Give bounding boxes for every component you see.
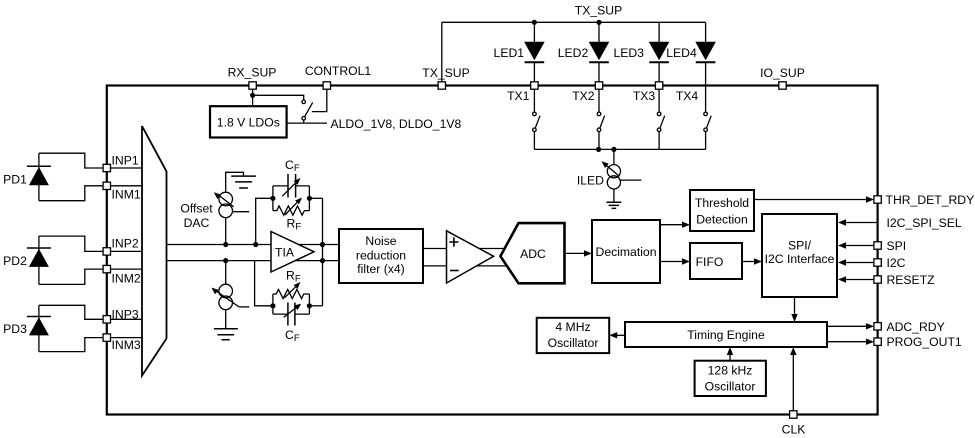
- block Decimation: [592, 220, 660, 283]
- current source offset DAC upper: [219, 192, 233, 206]
- svg-text:TX_SUP: TX_SUP: [422, 66, 469, 80]
- wire ILED control stub: [621, 179, 642, 181]
- wire filter to ADC lower: [423, 265, 508, 267]
- pin INM3: [103, 334, 110, 341]
- svg-text:CF: CF: [285, 158, 300, 174]
- svg-text:LED3: LED3: [613, 46, 644, 60]
- wire Timing Engine to ADC_RDY pin: [827, 325, 870, 327]
- photodiode PD2 vertical: [38, 236, 40, 284]
- svg-text:THR_DET_RDY: THR_DET_RDY: [886, 193, 975, 207]
- wire switch S3 to bus: [658, 132, 660, 150]
- node feedback lower right: [307, 303, 312, 308]
- feedback loop lower frame: [273, 294, 310, 314]
- block Threshold Detection: [690, 190, 754, 231]
- current source offset DAC lower: [219, 284, 233, 298]
- wire mux to TIA negative (lower): [167, 260, 340, 262]
- svg-text:Oscillator: Oscillator: [705, 380, 756, 394]
- wire switch S5 to ALDO line: [303, 120, 305, 123]
- pin THR_DET_RDY: [874, 196, 881, 203]
- svg-text:INM2: INM2: [112, 271, 141, 285]
- block 128 kHz Oscillator: [695, 361, 766, 396]
- wire switch S2 to bus: [598, 132, 600, 150]
- wire bus to ILED source: [613, 149, 615, 164]
- svg-text:INP1: INP1: [112, 153, 139, 167]
- wire feedback right vertical: [322, 198, 324, 305]
- wire RX_SUP branch to switch: [253, 95, 304, 100]
- svg-text:ALDO_1V8, DLDO_1V8: ALDO_1V8, DLDO_1V8: [331, 117, 462, 131]
- net TX_SUP top rail wire: [442, 21, 706, 23]
- svg-text:filter (x4): filter (x4): [357, 262, 404, 276]
- svg-text:RESETZ: RESETZ: [887, 273, 936, 287]
- wire RX_SUP pin into chip: [252, 86, 254, 107]
- node junction dot feedback upper right on wire: [320, 242, 325, 247]
- pin TX3: [655, 82, 662, 89]
- ground ILED: [606, 202, 621, 208]
- pin RX_SUP: [249, 82, 256, 89]
- svg-text:PD1: PD1: [3, 172, 27, 186]
- capacitor CF lower (variable): [288, 303, 295, 326]
- photodiode PD2 loop top wire: [39, 236, 107, 251]
- photodiode PD2 loop bottom wire: [39, 269, 107, 284]
- svg-text:LED2: LED2: [558, 46, 589, 60]
- pin TX_SUP: [438, 82, 445, 89]
- svg-text:FIFO: FIFO: [696, 255, 724, 269]
- wire LED4 anode drop: [705, 22, 707, 42]
- wire offset DAC lower control stub: [239, 306, 249, 308]
- block FIFO: [690, 243, 742, 279]
- svg-text:4 MHz: 4 MHz: [555, 320, 590, 334]
- photodiode PD3 loop bottom wire: [39, 338, 107, 352]
- svg-text:INP3: INP3: [112, 307, 139, 321]
- wire LED2 cathode to pin TX2: [598, 62, 600, 85]
- wire TX1 internal to switch: [533, 86, 535, 113]
- wire ILED source to ground: [613, 189, 615, 202]
- mux input multiplexer: [142, 126, 167, 376]
- svg-text:INP2: INP2: [112, 236, 139, 250]
- switch S4 (TX4): [704, 112, 708, 116]
- wire Decimation to Threshold Detection: [660, 224, 686, 226]
- node feedback upper right: [307, 196, 312, 201]
- node junction dot bus-TX2: [596, 147, 601, 152]
- wire offset DAC upper control stub: [232, 211, 249, 213]
- block SPI/I2C Interface: [762, 214, 837, 297]
- photodiode PD3 loop top wire: [39, 305, 107, 319]
- pin INM2: [103, 265, 110, 272]
- pin INM1: [103, 182, 110, 189]
- wire offset DAC upper to input wire: [225, 218, 227, 245]
- svg-text:Decimation: Decimation: [596, 245, 657, 259]
- svg-text:SPI: SPI: [887, 239, 907, 253]
- wire feedback upper left branch: [256, 198, 273, 244]
- LED D2 (LED2): [589, 42, 610, 61]
- svg-text:Threshold: Threshold: [695, 196, 749, 210]
- svg-text:I2C Interface: I2C Interface: [765, 252, 835, 266]
- svg-text:SPI/: SPI/: [788, 238, 812, 252]
- resistor RF upper (variable): [273, 206, 310, 215]
- svg-text:TIA: TIA: [275, 245, 295, 259]
- block noise reduction filter: [339, 229, 423, 283]
- wire feedback lower right branch: [309, 305, 322, 307]
- LED D1 (LED1): [524, 42, 545, 61]
- wire LED1 cathode to pin TX1: [533, 62, 535, 85]
- wire LDO output ALDO_1V8: [287, 122, 327, 124]
- svg-text:PD3: PD3: [3, 322, 27, 336]
- svg-text:IO_SUP: IO_SUP: [760, 66, 805, 80]
- pin ADC_RDY: [874, 323, 881, 330]
- svg-text:ILED: ILED: [577, 173, 604, 187]
- svg-text:PROG_OUT1: PROG_OUT1: [887, 335, 962, 349]
- svg-text:CONTROL1: CONTROL1: [305, 64, 372, 78]
- wire INM1 pin to mux: [107, 185, 142, 187]
- node feedback upper left: [270, 196, 275, 201]
- svg-text:TX4: TX4: [676, 89, 699, 103]
- pin INP2: [103, 248, 110, 255]
- pin INP1: [103, 164, 110, 171]
- node junction dot feedback upper left on wire: [253, 242, 258, 247]
- wire INM3 pin to mux: [107, 337, 142, 339]
- block Timing Engine: [625, 322, 827, 347]
- wire feedback upper right branch: [309, 197, 322, 199]
- pin CLK: [790, 411, 797, 418]
- svg-text:TX2: TX2: [572, 89, 595, 103]
- wire Decimation to FIFO: [660, 261, 686, 263]
- wire Timing Engine to PROG_OUT1 pin: [827, 341, 870, 343]
- pin TX1: [531, 82, 538, 89]
- node junction dot bus-ILED: [611, 147, 616, 152]
- svg-text:PD2: PD2: [3, 254, 27, 268]
- node junction dot rail-LED2: [596, 20, 601, 25]
- wire INP2 pin to mux: [107, 250, 142, 252]
- svg-text:RF: RF: [287, 217, 302, 233]
- node junction dot offset DAC upper on wire: [223, 242, 228, 247]
- photodiode PD1 diode: [27, 165, 51, 167]
- svg-text:TX3: TX3: [633, 89, 656, 103]
- pin CONTROL1: [323, 82, 330, 89]
- photodiode PD1 vertical: [38, 153, 40, 201]
- svg-text:TX1: TX1: [507, 89, 530, 103]
- svg-text:Timing Engine: Timing Engine: [687, 328, 765, 342]
- pin RESETZ: [874, 276, 881, 283]
- wire feedback lower left branch: [255, 261, 273, 306]
- wire FIFO to SPI interface: [742, 261, 758, 263]
- svg-text:TX_SUP: TX_SUP: [575, 4, 622, 18]
- wire CLK pin to Timing Engine: [792, 351, 794, 415]
- svg-text:RX_SUP: RX_SUP: [228, 66, 277, 80]
- switch S3 (TX3): [657, 112, 661, 116]
- svg-text:DAC: DAC: [184, 216, 210, 230]
- block ADC: [500, 223, 564, 283]
- wire INP3 pin to mux: [107, 318, 142, 320]
- wire TX_SUP rail drop to TX_SUP pin: [441, 22, 443, 85]
- svg-text:LED1: LED1: [494, 46, 525, 60]
- wire offset DAC lower to ground: [225, 310, 227, 329]
- wire LED1 anode drop: [533, 22, 535, 42]
- photodiode PD3 diode: [27, 316, 51, 318]
- svg-text:I2C_SPI_SEL: I2C_SPI_SEL: [887, 216, 962, 230]
- svg-text:1.8 V LDOs: 1.8 V LDOs: [217, 116, 280, 130]
- node feedback lower left: [270, 303, 275, 308]
- svg-text:ADC_RDY: ADC_RDY: [887, 320, 945, 334]
- svg-text:Offset: Offset: [180, 201, 213, 215]
- wire SPI interface to Timing Engine: [794, 297, 796, 318]
- wire CONTROL1 pin to switch: [312, 86, 327, 112]
- svg-text:CLK: CLK: [782, 423, 806, 437]
- wire INM2 pin to mux: [107, 268, 142, 270]
- capacitor CF upper (variable): [288, 174, 296, 198]
- svg-text:Oscillator: Oscillator: [548, 336, 599, 350]
- photodiode PD3 vertical: [38, 305, 40, 351]
- pin I2C: [874, 259, 881, 266]
- wire Timing Engine to 4 MHz Oscillator: [613, 334, 625, 336]
- wire Threshold Detection to THR_DET_RDY pin: [754, 199, 870, 201]
- wire offset DAC upper to chassis ground: [226, 172, 244, 192]
- svg-text:Detection: Detection: [696, 213, 748, 227]
- photodiode PD2 diode: [27, 247, 51, 249]
- feedback loop upper frame: [273, 186, 310, 211]
- LED D4 (LED4): [695, 42, 716, 61]
- wire filter to ADC upper: [423, 248, 508, 250]
- node junction dot RX_SUP branch: [250, 93, 255, 98]
- pin IO_SUP: [779, 82, 786, 89]
- wire TX4 internal to switch: [705, 89, 707, 112]
- wire switch S1 to bus: [533, 132, 535, 150]
- wire INP1 pin to mux: [107, 167, 142, 169]
- switch S5 (LDO bypass): [302, 100, 306, 104]
- photodiode PD1 loop top wire: [39, 153, 107, 168]
- wire SPI pin into SPI interface: [842, 245, 878, 247]
- photodiode PD1 loop bottom wire: [39, 186, 107, 201]
- regulator U2 1.8 V LDOs box: [210, 106, 287, 137]
- pin SPI: [874, 242, 881, 249]
- wire TX3 internal to switch: [658, 86, 660, 113]
- wire 128 kHz Oscillator to Timing Engine: [729, 351, 731, 361]
- svg-text:I2C: I2C: [887, 256, 906, 270]
- svg-text:128 kHz: 128 kHz: [708, 364, 753, 378]
- LED D3 (LED3): [649, 42, 670, 61]
- svg-text:Noise: Noise: [365, 234, 396, 248]
- pin PROG_OUT1: [874, 338, 881, 345]
- wire LED3 anode drop: [658, 22, 660, 42]
- svg-text:RF: RF: [286, 269, 301, 285]
- svg-text:INM3: INM3: [112, 338, 141, 352]
- pin INP3: [103, 316, 110, 323]
- resistor RF lower (variable): [273, 289, 310, 298]
- node junction dot feedback lower right on wire: [320, 258, 325, 263]
- wire LED4 cathode through edge TX4: [705, 62, 707, 89]
- svg-text:reduction: reduction: [356, 249, 406, 263]
- wire I2C pin into SPI interface: [842, 262, 878, 264]
- svg-text:ADC: ADC: [520, 247, 546, 261]
- wire I2C_SPI_SEL into SPI interface: [842, 222, 878, 224]
- ground chassis (offset DAC upper): [231, 176, 256, 188]
- wire TX2 internal to switch: [598, 86, 600, 113]
- chip outline U1 (AFE): [107, 86, 878, 415]
- svg-text:LED4: LED4: [666, 46, 697, 60]
- ground (offset DAC lower): [214, 329, 238, 340]
- wire LED2 anode drop: [598, 22, 600, 42]
- op-amp TIA: [271, 232, 314, 273]
- pin TX2: [595, 82, 602, 89]
- block 4 MHz Oscillator: [537, 318, 610, 353]
- current source ILED: [607, 165, 620, 178]
- wire ADC to Decimation: [565, 252, 589, 254]
- wire mux to TIA positive (upper): [167, 244, 340, 246]
- node junction dot offset DAC lower on wire: [223, 258, 228, 263]
- switch S1 (TX1): [533, 112, 537, 116]
- wire LED3 cathode to pin TX3: [658, 62, 660, 85]
- wire LED return bus: [534, 148, 705, 150]
- node junction dot rail-LED1: [532, 20, 537, 25]
- switch S2 (TX2): [597, 112, 601, 116]
- wire RESETZ pin into SPI interface: [842, 279, 878, 281]
- wire switch S4 to bus: [705, 132, 707, 150]
- svg-text:CF: CF: [285, 328, 300, 344]
- svg-text:INM1: INM1: [112, 188, 141, 202]
- op-amp buffer (ADC driver): [447, 231, 494, 283]
- wire offset DAC lower from input wire: [225, 261, 227, 285]
